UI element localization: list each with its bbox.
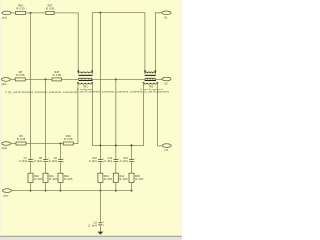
transformer TR2 core — [145, 75, 156, 81]
wire phase3 shunt drop — [60, 144, 62, 160]
resistor R12 — [58, 173, 73, 182]
svg-text:C: {Fc}: C: {Fc} — [120, 159, 128, 163]
wire — [115, 163, 117, 173]
svg-text:2: 2 — [134, 159, 135, 161]
wire shunt drop right3 — [131, 145, 133, 159]
wire — [73, 143, 78, 145]
resistor R13 — [98, 173, 113, 182]
svg-text:pin1: pin1 — [2, 15, 7, 19]
node bus-C8 — [45, 190, 47, 192]
capacitor C7 — [19, 156, 34, 163]
transformer TR2 label — [148, 85, 153, 89]
transformer TR1 winding W2 — [78, 78, 92, 79]
resistor R10 — [28, 173, 43, 182]
svg-text:TR2: TR2 — [148, 85, 153, 89]
svg-text:R: 4Oh: R: 4Oh — [34, 177, 43, 181]
node bus-C9 — [60, 190, 62, 192]
wire — [99, 163, 101, 173]
wire — [30, 163, 32, 173]
node return junction 2 — [115, 145, 117, 147]
node row2-output junction — [115, 78, 117, 80]
value label TR2 parameters — [141, 88, 163, 91]
wire — [60, 163, 62, 173]
node bus-C10 — [99, 190, 101, 192]
wire — [115, 182, 117, 190]
wire net2 — [92, 13, 145, 71]
svg-text:TR1: TR1 — [83, 85, 88, 89]
wire phase2 shunt drop — [45, 79, 47, 159]
svg-text:U2: U2 — [164, 82, 168, 86]
node row2-branch junction — [45, 78, 47, 80]
port U3 — [162, 144, 171, 152]
transformer TR2 winding W1 — [144, 70, 156, 73]
wire — [77, 83, 79, 144]
value label inductance annotation left — [5, 90, 76, 94]
transformer TR2 winding W3 — [143, 82, 159, 84]
node row1-branch junction — [30, 12, 32, 14]
resistor R19 — [63, 134, 73, 145]
wire — [10, 78, 15, 80]
ground arrow — [98, 232, 104, 235]
svg-text:R: 4Oh: R: 4Oh — [119, 177, 128, 181]
resistor R8 — [15, 70, 25, 81]
svg-text:R: 0.05: R: 0.05 — [46, 6, 55, 10]
wire — [131, 163, 133, 173]
svg-text:R: 4Oh: R: 4Oh — [104, 177, 113, 181]
resistor R15 — [129, 173, 144, 182]
wire — [158, 83, 163, 146]
svg-text:C: {Fc}: C: {Fc} — [19, 159, 27, 163]
svg-text:R: 0.05: R: 0.05 — [16, 73, 25, 77]
wire — [11, 12, 16, 14]
node return junction 1 — [100, 145, 102, 147]
svg-text:1: 1 — [63, 162, 64, 164]
svg-text:R: 0.05: R: 0.05 — [53, 73, 62, 77]
transformer TR1 core — [79, 75, 93, 81]
wire — [26, 12, 46, 14]
svg-text:1: 1 — [134, 162, 135, 164]
svg-text:R: 0.05: R: 0.05 — [17, 137, 26, 141]
node net2 junction — [99, 12, 101, 14]
value label TR1 parameters — [77, 88, 93, 91]
svg-text:C: {Fc}: C: {Fc} — [104, 159, 112, 163]
wire — [26, 143, 63, 145]
svg-text:R: 4Oh: R: 4Oh — [49, 177, 58, 181]
port pin1 — [2, 11, 11, 19]
wire — [54, 13, 78, 71]
wire — [25, 78, 52, 80]
wire — [99, 225, 101, 231]
svg-text:C: {Fc}: C: {Fc} — [34, 159, 42, 163]
resistor R9 — [16, 134, 26, 145]
node bus-C7 — [30, 190, 32, 192]
wire — [60, 182, 62, 190]
wire — [30, 182, 32, 190]
node bus-C11 — [115, 190, 117, 192]
wire — [143, 83, 145, 146]
svg-text:L: [[L_aut R,common], Lcommon,: L: [[L_aut R,common], Lcommon, Lcommon, … — [5, 90, 76, 94]
capacitor C12 — [120, 156, 135, 163]
svg-text:R: 0.05: R: 0.05 — [64, 137, 73, 141]
svg-text:pin2: pin2 — [2, 82, 7, 86]
wire — [45, 182, 47, 190]
wire phase1 shunt drop — [30, 13, 32, 159]
transformer TR1 winding W3 — [77, 82, 93, 84]
svg-text:[L_aut R,common], Lcommon, Lco: [L_aut R,common], Lcommon, Lcommon, Lcom… — [77, 90, 169, 94]
capacitor C9 — [49, 156, 64, 163]
svg-text:R: 0.05: R: 0.05 — [16, 6, 25, 10]
resistor R18 — [52, 70, 62, 81]
node row3-branch junction — [60, 143, 62, 145]
capacitor C10 — [89, 156, 104, 163]
transformer TR1 label — [83, 85, 88, 89]
svg-text:R: 4Oh: R: 4Oh — [135, 177, 144, 181]
wire — [11, 143, 16, 145]
transformer TR1 winding W1 — [77, 70, 93, 73]
svg-text:1: 1 — [103, 225, 104, 227]
svg-text:C: {Fc}: C: {Fc} — [49, 159, 57, 163]
svg-text:R: 4Oh: R: 4Oh — [64, 177, 73, 181]
svg-text:2: 2 — [63, 159, 64, 161]
port pin3 — [2, 142, 11, 150]
svg-text:C: 1e-9: C: 1e-9 — [88, 223, 97, 227]
port com — [2, 189, 11, 198]
transformer TR2 winding W2 — [145, 78, 156, 79]
port U1 — [162, 11, 171, 19]
wire ground bus — [11, 190, 131, 192]
wire — [99, 182, 101, 190]
svg-text:com: com — [3, 194, 8, 197]
capacitor C8 — [34, 156, 49, 163]
wire — [91, 78, 145, 80]
wire — [45, 163, 47, 173]
capacitor C2 — [88, 220, 104, 227]
port U2 — [162, 77, 171, 86]
wire — [155, 13, 162, 71]
node return junction 3 — [131, 144, 133, 146]
wire phase2 output shunt drop — [115, 79, 117, 159]
resistor R17 — [46, 3, 55, 14]
svg-text:U3: U3 — [165, 148, 169, 152]
svg-text:2: 2 — [103, 222, 104, 224]
wire — [62, 78, 79, 80]
resistor R16 — [16, 3, 26, 14]
wire — [155, 78, 162, 80]
svg-text:C: {Fc}: C: {Fc} — [89, 159, 97, 163]
svg-text:U1: U1 — [164, 15, 168, 19]
capacitor C11 — [104, 156, 119, 163]
value label inductance annotation right — [77, 90, 169, 94]
wire — [131, 182, 133, 190]
port pin2 — [1, 78, 10, 86]
node bus-C12 — [131, 190, 133, 192]
resistor R14 — [113, 173, 128, 182]
resistor R11 — [43, 173, 58, 182]
wire — [92, 83, 143, 146]
wire — [99, 191, 101, 223]
svg-text:pin3: pin3 — [2, 146, 7, 150]
wire net2 shunt drop — [99, 13, 101, 160]
